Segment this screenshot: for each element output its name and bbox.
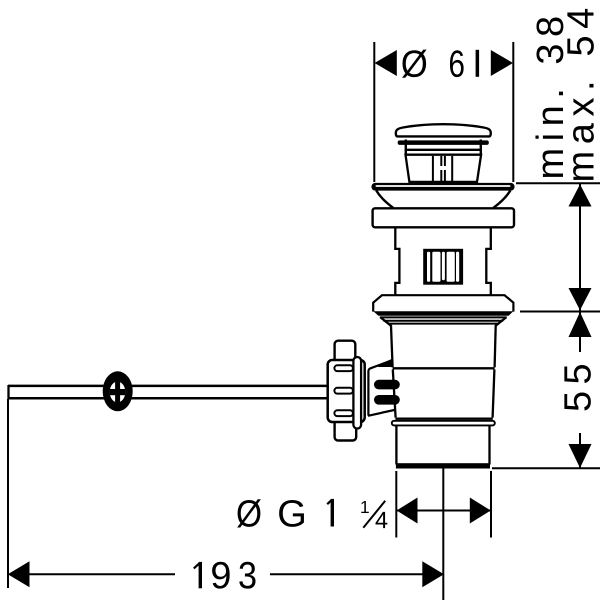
top flange white slit — [376, 185, 511, 187]
vertical label max. 54 — [567, 9, 594, 180]
dimension 193 line left segment — [22, 573, 175, 575]
dimension min38/max54 arrow up — [569, 184, 592, 206]
rod knob inner white ellipse — [110, 382, 126, 403]
tube shoulder line — [389, 323, 498, 325]
tailpiece seam 2 — [395, 418, 492, 420]
vertical label min. 38 — [535, 18, 563, 177]
locknut — [373, 208, 514, 227]
seat flange thick bottom band — [373, 311, 513, 316]
connector ring capsule — [353, 357, 361, 429]
dimension 193 arrow right — [422, 561, 444, 587]
overflow slot window — [423, 249, 463, 285]
tailpiece lower section left edge — [395, 426, 397, 465]
dimension G1-1/4 extension line right — [490, 471, 492, 538]
tailpiece lower section right edge — [488, 426, 490, 465]
rod knob phillips cross — [110, 382, 126, 403]
dimension 55 arrow down (tip at tailpiece bottom line) — [569, 444, 592, 468]
cap skirt center rod right line — [444, 156, 446, 181]
lift rod end cap — [7, 385, 9, 399]
dimension 193 arrow left — [8, 561, 30, 587]
upper body outline — [395, 227, 491, 295]
cap neck left edge — [405, 140, 407, 156]
dimension min38/max54 arrow down — [569, 288, 592, 310]
rod knob (black ellipse) — [103, 371, 133, 411]
dimension G1-1/4 extension line left — [395, 471, 397, 538]
boss top slant line — [371, 361, 391, 369]
cap snap-ring thick bar (with protruding ends) — [398, 140, 489, 145]
vertical label 55 — [564, 365, 591, 410]
dimension 55 upper stub — [579, 312, 581, 352]
tailpiece upper section right edge — [495, 317, 507, 367]
rod connector top tab — [335, 341, 356, 363]
bayonet pin lower (black) — [374, 395, 400, 405]
lift rod top line — [8, 385, 329, 388]
dimension min38/max54 line — [579, 184, 581, 311]
cap skirt inner vertical left — [432, 156, 434, 181]
cap skirt — [406, 155, 482, 182]
seat washer top line — [380, 316, 507, 318]
dimension 55 arrow up (tip at seat flange line) — [569, 312, 592, 337]
tailpiece flare collar — [392, 421, 495, 426]
cap neck right edge — [480, 140, 482, 156]
cap skirt center rod left line — [440, 156, 442, 181]
tailpiece seam 1 — [393, 367, 495, 369]
bayonet pin upper (black) — [374, 380, 400, 390]
tailpiece bottom rim (thick) — [396, 463, 490, 468]
dimension 193 extension line left — [7, 399, 9, 588]
dimension 193 line right segment — [270, 573, 426, 575]
boss bottom slant line — [368, 410, 394, 416]
extension line mid right (seat flange level) — [520, 311, 600, 313]
tailpiece upper section left edge — [381, 317, 393, 367]
connector slot 2 — [334, 388, 353, 394]
dimension G1-1/4 arrow left — [397, 498, 418, 524]
cap neck groove line — [405, 149, 482, 151]
center axis line — [442, 469, 444, 600]
connector slot 1 — [334, 365, 353, 371]
boss left edge — [368, 368, 371, 415]
cap dome — [396, 124, 491, 136]
cap skirt inner vertical right — [451, 156, 453, 181]
dimension Ø61 arrow left — [375, 50, 397, 76]
rod connector bottom tab — [335, 420, 357, 441]
seat flange top plate — [373, 295, 513, 311]
dimension Ø61 extension line left — [373, 42, 375, 182]
rod connector castellated block — [328, 360, 365, 422]
top flange (Ø61) — [371, 183, 514, 191]
dimension Ø61 arrow right — [491, 50, 513, 76]
tailpiece mid section left edge — [393, 370, 396, 418]
dimension 55 lower stub — [579, 433, 581, 468]
tailpiece mid section right edge — [493, 370, 495, 418]
boss black wedge — [378, 359, 392, 367]
dimension G1-1/4 line — [396, 510, 491, 512]
funnel left curve — [376, 190, 393, 207]
dimension label Ø 61 — [402, 50, 479, 78]
lift rod bottom line — [8, 397, 329, 400]
label Ø G 1 1/4 — [237, 499, 387, 528]
extension line bottom right (tailpiece bottom level) — [492, 467, 600, 469]
dimension Ø61 extension line right — [512, 42, 514, 182]
connector slot 3 — [334, 410, 353, 416]
overflow slots (white) — [427, 252, 459, 282]
dimension G1-1/4 arrow right — [470, 498, 491, 524]
label 193 — [194, 562, 256, 589]
extension line top right (flange top level) — [516, 182, 600, 184]
funnel right curve — [493, 190, 510, 207]
seat washer bottom line — [383, 320, 503, 322]
